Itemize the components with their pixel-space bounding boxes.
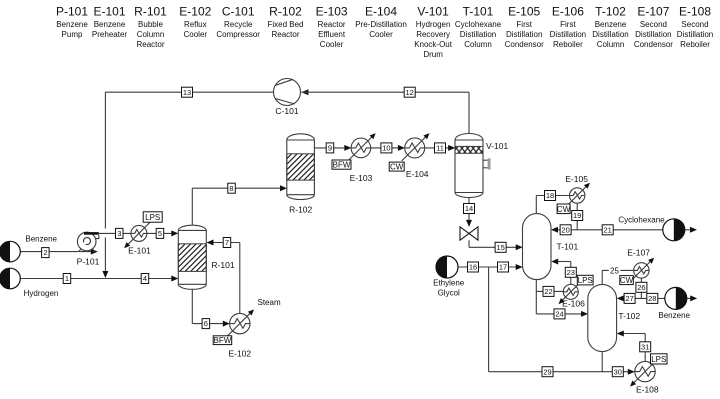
svg-text:Bubble: Bubble (138, 20, 163, 29)
svg-text:10: 10 (382, 144, 390, 153)
svg-text:T-101: T-101 (557, 241, 579, 251)
svg-text:Distillation: Distillation (460, 30, 496, 39)
svg-text:Glycol: Glycol (438, 288, 460, 297)
svg-text:E-108: E-108 (636, 385, 659, 395)
svg-text:C-101: C-101 (275, 106, 298, 116)
svg-text:Steam: Steam (258, 298, 281, 307)
svg-text:E-107: E-107 (627, 248, 650, 258)
svg-text:E-104: E-104 (365, 4, 397, 18)
svg-text:Reactor: Reactor (136, 40, 164, 49)
svg-text:Distillation: Distillation (550, 30, 586, 39)
svg-text:Compressor: Compressor (216, 30, 260, 39)
svg-text:BFW: BFW (333, 161, 351, 170)
svg-text:E-101: E-101 (93, 4, 125, 18)
svg-text:E-107: E-107 (637, 4, 669, 18)
svg-text:29: 29 (543, 367, 551, 376)
svg-text:Second: Second (640, 20, 667, 29)
svg-text:CW: CW (620, 276, 634, 285)
svg-text:T-102: T-102 (595, 4, 626, 18)
svg-text:2: 2 (43, 248, 47, 257)
svg-text:Benzene: Benzene (25, 234, 57, 243)
svg-text:E-103: E-103 (316, 4, 348, 18)
svg-text:Cooler: Cooler (369, 30, 393, 39)
svg-text:Cooler: Cooler (184, 30, 208, 39)
svg-text:R-102: R-102 (289, 205, 312, 215)
svg-text:28: 28 (648, 294, 656, 303)
svg-text:CW: CW (557, 205, 571, 214)
svg-text:Cyclohexane: Cyclohexane (455, 20, 502, 29)
svg-text:Column: Column (137, 30, 165, 39)
svg-text:Reflux: Reflux (184, 20, 207, 29)
svg-text:Hydrogen: Hydrogen (24, 289, 59, 298)
svg-text:30: 30 (614, 367, 622, 376)
svg-text:E-102: E-102 (228, 349, 251, 359)
svg-text:Pre-Distillation: Pre-Distillation (355, 20, 407, 29)
svg-text:6: 6 (204, 319, 208, 328)
svg-text:31: 31 (641, 342, 649, 351)
svg-text:Recycle: Recycle (224, 20, 253, 29)
svg-text:Condensor: Condensor (505, 40, 544, 49)
svg-text:LPS: LPS (578, 276, 593, 285)
svg-text:Benzene: Benzene (94, 20, 126, 29)
svg-text:11: 11 (436, 144, 444, 153)
svg-text:Column: Column (597, 40, 625, 49)
svg-text:T-101: T-101 (463, 4, 494, 18)
svg-text:E-101: E-101 (128, 246, 151, 256)
svg-text:V-101: V-101 (417, 4, 449, 18)
svg-text:8: 8 (229, 184, 233, 193)
svg-text:E-104: E-104 (406, 169, 429, 179)
svg-text:3: 3 (117, 229, 121, 238)
svg-text:13: 13 (183, 88, 191, 97)
svg-text:Benzene: Benzene (658, 311, 690, 320)
svg-text:12: 12 (406, 88, 414, 97)
svg-text:5: 5 (158, 229, 162, 238)
svg-text:LPS: LPS (145, 213, 160, 222)
svg-text:Condensor: Condensor (634, 40, 673, 49)
svg-text:E-106: E-106 (552, 4, 584, 18)
svg-text:26: 26 (637, 283, 645, 292)
svg-text:V-101: V-101 (486, 141, 508, 151)
svg-text:R-102: R-102 (269, 4, 302, 18)
svg-text:Benzene: Benzene (595, 20, 627, 29)
svg-text:Preheater: Preheater (92, 30, 127, 39)
svg-text:24: 24 (555, 310, 563, 319)
svg-text:17: 17 (499, 263, 507, 272)
svg-text:27: 27 (625, 294, 633, 303)
svg-text:R-101: R-101 (134, 4, 167, 18)
svg-text:CW: CW (390, 163, 404, 172)
svg-text:E-108: E-108 (679, 4, 711, 18)
svg-text:E-105: E-105 (565, 174, 588, 184)
svg-text:Distillation: Distillation (677, 30, 713, 39)
svg-text:Second: Second (681, 20, 708, 29)
svg-text:18: 18 (546, 191, 554, 200)
svg-text:Hydrogen: Hydrogen (416, 20, 451, 29)
svg-text:Cyclohexane: Cyclohexane (618, 216, 665, 225)
svg-text:Reboiler: Reboiler (680, 40, 710, 49)
svg-text:P-101: P-101 (77, 257, 100, 267)
svg-text:Distillation: Distillation (506, 30, 542, 39)
svg-text:Distillation: Distillation (592, 30, 628, 39)
svg-text:14: 14 (465, 204, 473, 213)
svg-text:15: 15 (496, 243, 504, 252)
svg-text:Distillation: Distillation (635, 30, 671, 39)
svg-text:Drum: Drum (423, 50, 443, 59)
svg-text:7: 7 (225, 238, 229, 247)
svg-text:21: 21 (604, 225, 612, 234)
svg-text:P-101: P-101 (56, 4, 88, 18)
svg-text:25: 25 (610, 267, 619, 276)
svg-text:E-102: E-102 (179, 4, 211, 18)
svg-text:E-106: E-106 (562, 299, 585, 309)
svg-text:Cooler: Cooler (320, 40, 344, 49)
svg-text:22: 22 (544, 287, 552, 296)
svg-text:Reboiler: Reboiler (553, 40, 583, 49)
svg-text:Effluent: Effluent (318, 30, 346, 39)
svg-text:First: First (516, 20, 532, 29)
svg-text:4: 4 (143, 274, 147, 283)
svg-text:R-101: R-101 (211, 260, 234, 270)
svg-text:E-105: E-105 (508, 4, 540, 18)
svg-text:Reactor: Reactor (318, 20, 346, 29)
svg-text:1: 1 (65, 274, 69, 283)
svg-text:E-103: E-103 (350, 173, 373, 183)
svg-text:Ethylene: Ethylene (433, 278, 465, 287)
svg-text:23: 23 (567, 268, 575, 277)
svg-text:Reactor: Reactor (271, 30, 299, 39)
svg-text:First: First (560, 20, 576, 29)
svg-text:Recovery: Recovery (416, 30, 450, 39)
svg-text:9: 9 (328, 144, 332, 153)
svg-text:Benzene: Benzene (56, 20, 88, 29)
svg-text:T-102: T-102 (618, 311, 640, 321)
svg-text:BFW: BFW (214, 336, 232, 345)
svg-text:20: 20 (561, 225, 569, 234)
svg-text:Fixed Bed: Fixed Bed (267, 20, 303, 29)
svg-text:Column: Column (464, 40, 492, 49)
svg-text:Pump: Pump (62, 30, 83, 39)
svg-text:16: 16 (469, 263, 477, 272)
svg-text:19: 19 (573, 211, 581, 220)
svg-text:Knock-Out: Knock-Out (414, 40, 453, 49)
svg-text:C-101: C-101 (222, 4, 255, 18)
svg-text:LPS: LPS (651, 355, 666, 364)
